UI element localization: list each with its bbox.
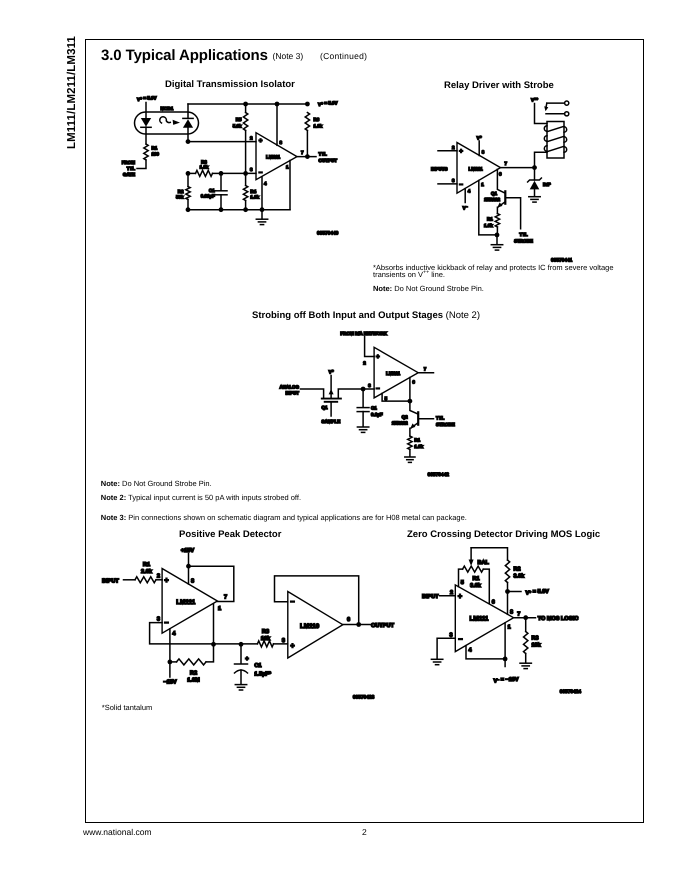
note do not ground strobe pin xyxy=(101,479,212,488)
resistor R3 10k (S4) xyxy=(257,629,287,647)
svg-text:R2: R2 xyxy=(190,671,197,677)
wire pin 4 (S5) xyxy=(466,646,505,659)
node V- pin 4 (S2) xyxy=(463,189,471,211)
wire pin 1 (S5) xyxy=(505,623,511,659)
id 00570442 xyxy=(428,472,450,478)
svg-text:3: 3 xyxy=(368,383,371,388)
light arrow inside MCD1 xyxy=(160,117,180,125)
svg-text:6: 6 xyxy=(492,600,495,606)
wire input pin 2 (S2) xyxy=(438,145,457,151)
svg-text:−: − xyxy=(459,182,463,189)
wire pin 6 OUTPUT (S4) xyxy=(343,617,395,629)
footer www.national.com xyxy=(83,827,152,837)
node INPUT (S5) xyxy=(422,590,455,600)
op-amp U1 LM111 (S3) xyxy=(374,347,418,398)
wire pin 1 to hold node (S4) xyxy=(213,604,215,645)
svg-text:INPUT: INPUT xyxy=(422,594,439,600)
capacitor C1 0.1uF (S3) xyxy=(357,389,383,427)
wire pin 3 to ground (S5) xyxy=(437,632,455,659)
resistor R1 2.0k (S4) xyxy=(135,562,162,583)
svg-text:2: 2 xyxy=(157,574,160,580)
node INPUTS (S2) xyxy=(431,166,448,171)
svg-text:7: 7 xyxy=(224,595,227,601)
svg-text:R5: R5 xyxy=(236,117,242,122)
ground below R3 (S5) xyxy=(520,663,531,668)
svg-text:3: 3 xyxy=(449,632,452,638)
svg-text:1.0k: 1.0k xyxy=(250,195,259,200)
svg-text:1: 1 xyxy=(508,625,511,631)
svg-text:D1*: D1* xyxy=(543,182,551,187)
svg-text:LM111: LM111 xyxy=(176,599,195,606)
svg-text:V+: V+ xyxy=(477,135,482,140)
wire pin 1 (S2) xyxy=(479,181,497,235)
svg-text:R1: R1 xyxy=(414,438,420,443)
op-amp U1 LM111 (S2) xyxy=(457,143,501,194)
svg-text:R1: R1 xyxy=(487,217,493,222)
svg-text:OUTPUT: OUTPUT xyxy=(371,623,395,629)
wire pin 7 TO MOS LOGIC (S5) xyxy=(514,611,579,622)
wire top rail V+ (S1) xyxy=(188,101,337,107)
svg-text:R2: R2 xyxy=(178,189,184,194)
svg-text:00570424: 00570424 xyxy=(560,689,582,695)
svg-text:5: 5 xyxy=(461,580,464,586)
id 00570441 xyxy=(551,258,573,264)
svg-text:+: + xyxy=(164,576,168,585)
svg-text:1.5µF*: 1.5µF* xyxy=(254,671,271,677)
svg-text:1.0k: 1.0k xyxy=(484,223,493,228)
id 00570440 xyxy=(317,231,339,237)
page frame xyxy=(85,39,644,823)
footer page number 2 xyxy=(362,827,367,837)
transistor Q1 sample switch (S3) xyxy=(321,389,363,424)
node V+ = 5.0V (S5) xyxy=(505,589,549,596)
svg-text:1.0M: 1.0M xyxy=(187,678,200,684)
ground below C1 (S4) xyxy=(235,685,246,690)
svg-text:1.0k: 1.0k xyxy=(200,165,209,170)
wire input pin 3 (S2) xyxy=(438,178,457,184)
sidebar part number LM111/LM211/LM311 xyxy=(66,37,78,149)
svg-text:4: 4 xyxy=(468,189,471,194)
resistor R2 3.0k (S5) xyxy=(505,560,525,592)
svg-text:00570441: 00570441 xyxy=(551,258,573,264)
svg-text:3: 3 xyxy=(157,617,160,623)
svg-text:7: 7 xyxy=(301,150,304,155)
hold node junctions (S4) xyxy=(211,642,257,647)
svg-text:−: − xyxy=(290,597,294,606)
svg-text:8: 8 xyxy=(510,609,513,615)
note solid tantalum xyxy=(102,703,152,712)
svg-text:OUTPUT: OUTPUT xyxy=(319,158,338,163)
svg-text:R3: R3 xyxy=(201,159,207,164)
svg-text:1: 1 xyxy=(218,606,221,612)
svg-text:C1: C1 xyxy=(254,663,261,669)
svg-text:LM110: LM110 xyxy=(300,623,320,630)
resistor R3 1.0k (S1) xyxy=(186,159,221,176)
note 2 input current xyxy=(101,493,301,502)
svg-text:TTL: TTL xyxy=(319,152,327,157)
resistor R3 10k (S5) xyxy=(524,618,542,663)
svg-text:INPUT: INPUT xyxy=(286,390,300,395)
svg-text:V+ = 5.0V: V+ = 5.0V xyxy=(526,589,550,596)
svg-text:0.1µF: 0.1µF xyxy=(371,412,383,417)
wire pin 1 (S1) xyxy=(286,161,290,210)
svg-text:00570423: 00570423 xyxy=(353,695,375,701)
svg-text:−: − xyxy=(164,618,168,627)
svg-text:3.0k: 3.0k xyxy=(514,574,526,580)
svg-text:00570440: 00570440 xyxy=(317,231,339,237)
svg-text:3: 3 xyxy=(282,638,285,644)
node FROM D/A NETWORK (S3) xyxy=(340,331,387,366)
svg-text:Q1: Q1 xyxy=(491,191,498,196)
svg-text:LM111: LM111 xyxy=(469,166,483,171)
svg-text:2: 2 xyxy=(450,590,453,596)
op-amp U1 LM111 (S1) xyxy=(256,133,297,180)
node V+ gate drive (S3) xyxy=(329,369,334,398)
wire LM110 feedback loop (S4) xyxy=(275,576,359,625)
LED inside MCD1 xyxy=(141,118,151,144)
svg-text:TO MOS LOGIC: TO MOS LOGIC xyxy=(538,616,579,622)
note do not ground strobe pin (relay) xyxy=(373,284,484,293)
wire pin 6 (S3) xyxy=(410,378,416,402)
ground below R1 (S2) xyxy=(491,233,502,251)
svg-text:4: 4 xyxy=(469,648,473,654)
svg-text:+: + xyxy=(458,592,462,601)
svg-text:V+: V+ xyxy=(329,369,334,374)
ground below D1 (S2) xyxy=(529,197,540,202)
title Positive Peak Detector xyxy=(179,529,281,540)
transistor Q1 2N2222 (S2) xyxy=(484,191,505,214)
svg-text:Q1: Q1 xyxy=(321,405,328,410)
optocoupler MCD1 body xyxy=(135,106,199,134)
svg-text:6: 6 xyxy=(412,380,415,385)
node V- = -10V (S5) xyxy=(494,657,519,685)
node V++ (S2) xyxy=(531,97,547,123)
svg-text:BAL: BAL xyxy=(478,560,490,566)
photodiode inside MCD1 xyxy=(183,104,193,142)
node INPUT (S4) xyxy=(102,578,135,584)
id 00570423 xyxy=(353,695,375,701)
svg-text:2N2222: 2N2222 xyxy=(392,420,408,425)
svg-text:V−: V− xyxy=(463,205,468,210)
svg-text:2.0k: 2.0k xyxy=(141,568,153,575)
svg-text:7: 7 xyxy=(424,367,427,372)
svg-text:+: + xyxy=(245,657,249,663)
ground at pin 3 (S5) xyxy=(431,659,442,664)
svg-text:STROBE: STROBE xyxy=(514,239,533,244)
svg-text:1: 1 xyxy=(286,165,289,170)
svg-text:R1: R1 xyxy=(143,562,150,568)
svg-text:+: + xyxy=(376,354,380,361)
svg-text:+: + xyxy=(459,148,463,155)
svg-text:LM111: LM111 xyxy=(386,371,400,376)
svg-text:Q2: Q2 xyxy=(402,414,409,419)
resistor R1 1.0k (S3) xyxy=(408,436,424,457)
svg-text:5.0k: 5.0k xyxy=(233,124,242,129)
svg-text:−15V: −15V xyxy=(163,680,176,686)
wire pin 6 (S5) xyxy=(483,569,495,605)
wire pin 3 input (S1) xyxy=(219,167,256,176)
wire base to TTL STROBE (S2) xyxy=(505,198,533,244)
svg-text:R6: R6 xyxy=(314,117,320,122)
node ANALOG INPUT (S3) xyxy=(280,384,324,398)
capacitor C1 1.5uF solid tantalum (S4) xyxy=(235,644,272,684)
wire pin 8 (S1) xyxy=(277,104,283,145)
svg-text:+: + xyxy=(259,138,263,145)
svg-text:5: 5 xyxy=(385,396,388,401)
wire pin 7 output (S1) xyxy=(297,150,337,163)
transistor Q2 2N2222 (S3) xyxy=(392,401,418,436)
svg-text:R1: R1 xyxy=(152,146,158,151)
svg-text:10k: 10k xyxy=(261,635,271,642)
heading 3.0 Typical Applications xyxy=(101,47,268,64)
wire pin 7 output (S3) xyxy=(418,367,433,373)
svg-text:V+ = 5.0V: V+ = 5.0V xyxy=(318,101,337,107)
svg-text:+: + xyxy=(290,641,294,650)
wire coil to output node (S2) xyxy=(535,152,548,167)
svg-text:+15V: +15V xyxy=(181,548,194,554)
note 3 pin connections xyxy=(101,513,467,522)
title Strobing off Both Input and Output Stages xyxy=(252,310,480,321)
svg-text:2N2222: 2N2222 xyxy=(484,197,500,202)
svg-text:TTL: TTL xyxy=(519,232,527,237)
resistor R5 5.0k xyxy=(233,104,248,173)
svg-text:4: 4 xyxy=(172,631,176,637)
ground (S1) xyxy=(256,210,267,225)
BAL wiper arrow (S5) xyxy=(469,548,490,566)
wire base TTL STROBE (S3) xyxy=(418,416,455,428)
wire pin 8 (S4) xyxy=(189,566,195,584)
svg-text:2: 2 xyxy=(250,136,253,141)
svg-text:R2: R2 xyxy=(514,567,521,573)
svg-text:TTL: TTL xyxy=(127,166,135,171)
resistor R4 1.0k xyxy=(243,173,259,209)
svg-text:R3: R3 xyxy=(262,629,269,635)
svg-text:8: 8 xyxy=(191,579,194,585)
note absorbs inductive kickback xyxy=(373,264,614,279)
svg-text:SAMPLE: SAMPLE xyxy=(322,419,341,424)
svg-text:V++: V++ xyxy=(531,97,538,102)
svg-text:1.0k: 1.0k xyxy=(314,124,323,129)
svg-text:6: 6 xyxy=(499,172,502,177)
svg-text:ANALOG: ANALOG xyxy=(280,384,300,389)
svg-text:TTL: TTL xyxy=(436,416,444,421)
svg-text:FROM: FROM xyxy=(122,160,135,165)
wire pin 4 (S4) xyxy=(170,629,177,662)
svg-text:MCD1: MCD1 xyxy=(161,106,174,111)
svg-text:0.01µF: 0.01µF xyxy=(201,194,215,199)
svg-text:R1: R1 xyxy=(472,576,479,582)
node V+ supply left (S1) xyxy=(137,96,156,118)
svg-text:R4: R4 xyxy=(250,189,256,194)
wire V+ to pin 7 loop (S4) xyxy=(189,566,234,612)
node V+ pin 8 (S2) xyxy=(477,135,485,155)
wire pin 7 output (S2) xyxy=(501,161,537,170)
svg-text:R3: R3 xyxy=(532,636,539,642)
node -15V (S4) xyxy=(163,660,176,686)
svg-text:C1: C1 xyxy=(209,188,215,193)
node FROM TTL GATE xyxy=(122,160,146,177)
wire bottom rail (S1) xyxy=(186,207,290,212)
capacitor C1 0.01uF (S1) xyxy=(201,173,227,209)
title Zero Crossing Detector Driving MOS Logic xyxy=(407,529,600,540)
resistor R2 50k xyxy=(176,173,190,209)
wire to pin 3 with node (S3) xyxy=(361,383,374,392)
relay coil (S2) xyxy=(544,122,566,159)
svg-text:INPUT: INPUT xyxy=(102,578,119,584)
title Digital Transmission Isolator xyxy=(165,79,295,90)
relay contacts (S2) xyxy=(544,101,569,116)
op-amp U2 LM110 (S4) xyxy=(288,592,343,659)
svg-text:10k: 10k xyxy=(532,643,542,649)
resistor R1 1.0k (S2) xyxy=(484,214,500,235)
svg-text:8: 8 xyxy=(280,140,283,145)
wire pin 3 feedback (S4) xyxy=(150,617,214,644)
id 00570424 xyxy=(560,689,582,695)
resistor R6 1.0k xyxy=(305,113,323,157)
wire wiper to R2 (S5) xyxy=(471,548,507,560)
svg-text:V− = −10V: V− = −10V xyxy=(494,677,519,684)
svg-text:STROBE: STROBE xyxy=(436,422,455,427)
wire pin 5 (S3) xyxy=(382,393,412,403)
svg-text:GATE: GATE xyxy=(123,172,135,177)
wire pin 2 input (S1) xyxy=(186,136,256,145)
ground below C1 (S3) xyxy=(357,427,368,432)
svg-text:FROM D/A NETWORK: FROM D/A NETWORK xyxy=(340,331,387,336)
op-amp U1 LM111 (S5) xyxy=(455,585,513,652)
svg-text:INPUTS: INPUTS xyxy=(431,166,448,171)
svg-text:LM111: LM111 xyxy=(470,616,489,623)
zener diode D1* (S2) xyxy=(528,168,551,197)
wire pin 5 (S5) xyxy=(459,569,464,587)
resistor R2 1.0M (S4) xyxy=(170,644,214,683)
svg-text:LM111: LM111 xyxy=(266,155,280,160)
svg-text:C1: C1 xyxy=(371,405,377,410)
svg-text:7: 7 xyxy=(517,611,520,617)
svg-text:3: 3 xyxy=(452,178,455,183)
wire pin 4 (S1) xyxy=(262,177,267,210)
svg-text:2: 2 xyxy=(452,145,455,150)
svg-text:−: − xyxy=(259,170,263,177)
wire pin 6 strobe (S2) xyxy=(497,169,505,193)
svg-text:1.0k: 1.0k xyxy=(414,444,423,449)
node +15V (S4) xyxy=(181,548,194,569)
svg-text:V+ = 5.0V: V+ = 5.0V xyxy=(137,96,156,102)
svg-text:6: 6 xyxy=(347,617,350,623)
svg-text:7: 7 xyxy=(505,161,508,166)
svg-text:00570442: 00570442 xyxy=(428,472,450,478)
svg-text:2: 2 xyxy=(363,361,366,366)
resistor R1 3.0k balance pot (S5) xyxy=(463,566,484,589)
svg-text:1: 1 xyxy=(481,182,484,187)
svg-text:3: 3 xyxy=(250,167,253,172)
resistor R1 100 (S1) xyxy=(144,144,160,160)
ground below R1 (S3) xyxy=(405,457,415,462)
svg-text:−: − xyxy=(458,634,462,643)
wire pin 8 (S5) xyxy=(508,592,514,616)
svg-text:100: 100 xyxy=(152,152,160,157)
svg-text:50k: 50k xyxy=(176,195,184,200)
svg-text:4: 4 xyxy=(264,181,267,186)
svg-text:−: − xyxy=(376,385,380,392)
svg-text:8: 8 xyxy=(482,150,485,155)
title Relay Driver with Strobe xyxy=(444,80,554,91)
svg-text:3.0k: 3.0k xyxy=(470,583,482,589)
op-amp U1 LM111 (S4) xyxy=(162,569,217,634)
